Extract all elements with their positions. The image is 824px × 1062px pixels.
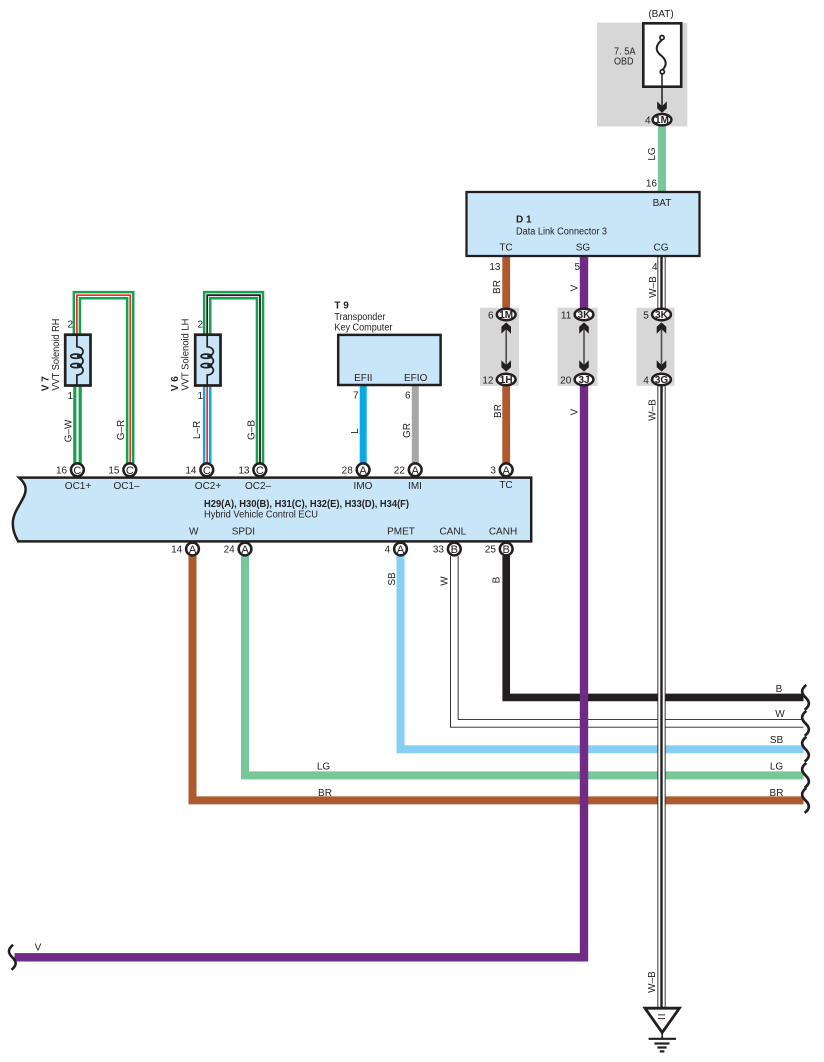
svg-text:D 1: D 1 xyxy=(516,215,532,226)
V6 solenoid coil xyxy=(201,336,213,385)
fuse element symbol xyxy=(657,36,666,74)
svg-text:16: 16 xyxy=(646,178,658,189)
connector oval 4 (3G) xyxy=(643,374,671,387)
svg-text:CANH: CANH xyxy=(489,527,517,538)
svg-text:G–B: G–B xyxy=(247,420,258,440)
svg-text:II: II xyxy=(657,1012,668,1020)
svg-text:T 9: T 9 xyxy=(334,301,349,312)
svg-text:24: 24 xyxy=(224,545,236,556)
svg-text:V 7: V 7 xyxy=(40,376,51,391)
wire BR bottom (ECU 14 W, down and right) xyxy=(193,556,804,800)
svg-text:B: B xyxy=(503,544,510,556)
svg-text:A: A xyxy=(189,544,197,556)
break squiggle W right xyxy=(802,711,809,736)
svg-text:G–W: G–W xyxy=(64,419,75,442)
svg-text:1H: 1H xyxy=(500,375,513,386)
svg-text:B: B xyxy=(451,544,458,556)
wire GR (T9 EFIO to ECU 22) xyxy=(412,385,419,463)
svg-text:SPDI: SPDI xyxy=(232,527,255,538)
svg-text:CANL: CANL xyxy=(439,527,466,538)
wire W (ECU 33 CANL) xyxy=(454,556,803,723)
wire L (T9 EFII to ECU 28) xyxy=(360,385,367,463)
T9 Transponder Key Computer box xyxy=(338,335,440,385)
junction block 1M/1H gray xyxy=(480,308,519,386)
svg-text:20: 20 xyxy=(560,375,572,386)
svg-text:5: 5 xyxy=(643,310,649,321)
svg-text:G–R: G–R xyxy=(116,420,127,441)
connector oval 20 (3J) xyxy=(560,374,593,387)
svg-text:22: 22 xyxy=(394,465,406,476)
svg-text:C: C xyxy=(126,465,134,477)
connector oval 6 (1M) xyxy=(488,309,516,322)
ECU pin 33 (B) bottom xyxy=(433,543,461,556)
svg-text:IMI: IMI xyxy=(408,481,422,492)
svg-text:(BAT): (BAT) xyxy=(648,9,673,20)
svg-text:Data Link Connector 3: Data Link Connector 3 xyxy=(516,227,607,238)
ECU pin 16 (C) xyxy=(56,463,84,476)
svg-text:SB: SB xyxy=(770,735,784,746)
svg-text:BR: BR xyxy=(492,280,503,294)
svg-text:2: 2 xyxy=(197,320,203,331)
svg-text:7: 7 xyxy=(353,391,359,402)
svg-text:BAT: BAT xyxy=(653,198,672,209)
svg-text:OC2+: OC2+ xyxy=(195,481,222,492)
svg-text:W: W xyxy=(775,709,785,720)
junction block 3K/3J gray xyxy=(558,308,598,386)
svg-text:13: 13 xyxy=(489,262,501,273)
connector oval 4 (1M) top xyxy=(645,114,671,127)
wire V (D1 SG pin5 down to junction 3K) xyxy=(580,255,588,315)
wire V (junction 3J down, across bottom to left edge) xyxy=(15,379,585,957)
svg-text:16: 16 xyxy=(56,465,68,476)
ground symbol II xyxy=(645,1008,679,1051)
svg-text:V: V xyxy=(570,408,581,415)
ECU pin 15 (C) xyxy=(108,463,136,476)
svg-text:1: 1 xyxy=(67,391,73,402)
svg-text:SG: SG xyxy=(576,243,591,254)
wire LG (fuse 1M to D1 BAT) xyxy=(658,124,666,195)
break squiggle SB right xyxy=(802,737,809,762)
svg-text:W: W xyxy=(440,576,451,586)
fuse 7.5A OBD box xyxy=(643,23,681,86)
svg-text:5: 5 xyxy=(574,262,580,273)
svg-text:BR: BR xyxy=(318,788,332,799)
solenoid V7 wire G-R loop (pin2 to ECU 15) xyxy=(77,295,130,463)
connector oval 11 (3K) xyxy=(561,309,593,322)
V6 VVT Solenoid LH box xyxy=(195,335,220,386)
wire SB (ECU 4 PMET) xyxy=(401,556,804,749)
V7 VVT Solenoid RH box xyxy=(65,335,90,386)
ECU pin 14 (A) bottom xyxy=(171,543,199,556)
svg-text:Key Computer: Key Computer xyxy=(334,322,393,333)
svg-text:A: A xyxy=(412,465,420,477)
svg-text:EFII: EFII xyxy=(354,373,372,384)
svg-text:14: 14 xyxy=(185,465,197,476)
wire W-B (D1 CG pin4 down to junction 3K) xyxy=(657,255,665,315)
svg-text:OBD: OBD xyxy=(614,56,634,67)
Hybrid Vehicle Control ECU box (wavy left edge) xyxy=(13,478,531,542)
ECU pin 3 (A) xyxy=(490,463,512,476)
svg-text:CG: CG xyxy=(654,243,669,254)
svg-text:V: V xyxy=(35,942,42,953)
svg-text:1M: 1M xyxy=(655,115,669,126)
svg-text:VVT Solenoid LH: VVT Solenoid LH xyxy=(180,319,191,391)
svg-text:Transponder: Transponder xyxy=(334,312,386,323)
break squiggle V left xyxy=(9,945,16,970)
svg-text:V 6: V 6 xyxy=(170,376,181,391)
solenoid V7 wire G-W (pin1 to ECU 16) xyxy=(73,386,82,463)
svg-text:EFIO: EFIO xyxy=(404,373,428,384)
ECU pin 22 (A) xyxy=(394,463,422,476)
svg-text:LG: LG xyxy=(647,147,658,161)
svg-text:L: L xyxy=(350,428,361,434)
svg-text:2: 2 xyxy=(67,320,73,331)
svg-text:C: C xyxy=(203,465,211,477)
svg-text:11: 11 xyxy=(561,310,572,321)
connector oval 12 (1H) xyxy=(482,374,515,387)
svg-text:A: A xyxy=(359,465,367,477)
svg-text:TC: TC xyxy=(499,243,512,254)
svg-text:3J: 3J xyxy=(578,375,589,386)
svg-text:W–B: W–B xyxy=(648,399,659,421)
wire B (ECU 25 CANH) xyxy=(506,556,803,697)
wire LG bottom (ECU 24 SPDI) xyxy=(245,556,804,775)
ECU pin 13 (C) xyxy=(238,463,266,476)
svg-text:W: W xyxy=(189,527,199,538)
svg-text:25: 25 xyxy=(485,545,497,556)
svg-text:OC1–: OC1– xyxy=(113,481,140,492)
junction arrows 3K-3J xyxy=(579,322,589,371)
svg-text:4: 4 xyxy=(645,116,651,127)
svg-text:V: V xyxy=(570,284,581,291)
svg-text:A: A xyxy=(397,544,405,556)
svg-text:BR: BR xyxy=(493,404,504,418)
svg-text:3G: 3G xyxy=(655,375,669,386)
svg-text:3K: 3K xyxy=(655,310,669,321)
svg-text:LG: LG xyxy=(317,762,331,773)
junction arrows 1M-1H xyxy=(501,322,511,371)
solenoid V6 wire G-B loop (pin2 to ECU 13) xyxy=(207,295,260,463)
svg-text:B: B xyxy=(776,684,783,695)
svg-text:6: 6 xyxy=(405,391,411,402)
svg-text:33: 33 xyxy=(433,545,445,556)
svg-text:BR: BR xyxy=(770,788,784,799)
svg-text:OC1+: OC1+ xyxy=(65,481,92,492)
svg-text:12: 12 xyxy=(482,375,494,386)
svg-text:C: C xyxy=(73,465,81,477)
svg-text:4: 4 xyxy=(643,375,649,386)
svg-text:LG: LG xyxy=(770,762,784,773)
svg-text:1: 1 xyxy=(197,391,203,402)
svg-text:PMET: PMET xyxy=(387,527,415,538)
svg-text:14: 14 xyxy=(171,545,183,556)
wire W-B (junction 3G down to ground) xyxy=(657,379,665,1008)
svg-text:GR: GR xyxy=(402,423,413,438)
arrowhead down into 1M xyxy=(657,101,667,112)
V7 solenoid coil xyxy=(71,336,83,385)
wire BR (D1 TC pin13 down to junction 1M) xyxy=(502,255,510,315)
connector oval 5 (3K) xyxy=(643,309,671,322)
svg-text:B: B xyxy=(492,576,503,583)
svg-text:SB: SB xyxy=(387,572,398,586)
svg-text:28: 28 xyxy=(342,465,354,476)
svg-text:IMO: IMO xyxy=(354,481,373,492)
svg-text:W–B: W–B xyxy=(648,276,659,298)
svg-text:W–B: W–B xyxy=(647,971,658,993)
svg-text:A: A xyxy=(241,544,249,556)
ECU pin 25 (B) bottom xyxy=(485,543,513,556)
junction arrows 3K-3G xyxy=(657,322,667,371)
svg-text:3K: 3K xyxy=(578,310,592,321)
svg-text:C: C xyxy=(256,465,264,477)
ECU pin 14 (C) xyxy=(185,463,213,476)
svg-text:4: 4 xyxy=(385,545,391,556)
wire from fuse to connector 1M xyxy=(661,74,663,107)
svg-text:Hybrid Vehicle Control ECU: Hybrid Vehicle Control ECU xyxy=(204,510,318,521)
svg-text:15: 15 xyxy=(108,465,120,476)
svg-text:13: 13 xyxy=(238,465,250,476)
junction block 3K/3G gray xyxy=(637,308,675,386)
svg-text:OC2–: OC2– xyxy=(245,481,272,492)
D1 Data Link Connector 3 box xyxy=(467,192,700,256)
break squiggle LG right xyxy=(802,763,809,788)
svg-text:4: 4 xyxy=(652,262,658,273)
svg-text:3: 3 xyxy=(490,465,496,476)
ECU pin 24 (A) bottom xyxy=(224,543,252,556)
svg-text:6: 6 xyxy=(488,310,494,321)
svg-text:TC: TC xyxy=(499,480,512,491)
svg-text:L–R: L–R xyxy=(192,421,203,439)
ECU pin 28 (A) xyxy=(342,463,370,476)
break squiggle B right xyxy=(802,685,809,710)
svg-text:1M: 1M xyxy=(499,310,513,321)
svg-text:A: A xyxy=(503,465,511,477)
break squiggle BR right xyxy=(802,788,809,813)
solenoid V6 wire L-R (pin1 to ECU 14) xyxy=(203,386,212,463)
svg-text:VVT Solenoid RH: VVT Solenoid RH xyxy=(51,319,62,391)
ECU pin 4 (A) bottom xyxy=(385,543,407,556)
svg-text:H29(A), H30(B), H31(C), H32(E): H29(A), H30(B), H31(C), H32(E), H33(D), … xyxy=(204,499,409,510)
wire BR (junction 1H down to ECU pin 3) xyxy=(502,379,510,463)
fuse panel gray area xyxy=(597,23,687,127)
